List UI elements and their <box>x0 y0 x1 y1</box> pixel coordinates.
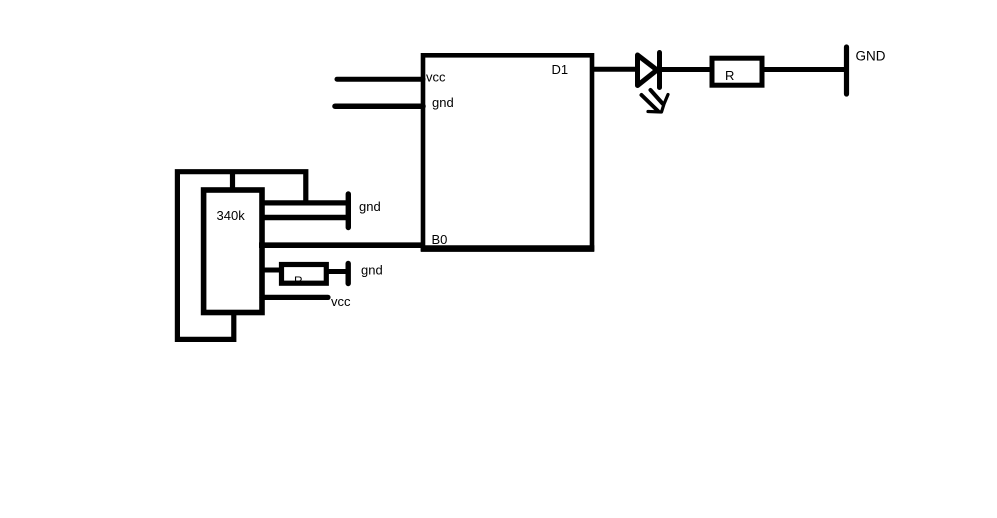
svg-text:R: R <box>725 68 734 83</box>
svg-text:gnd: gnd <box>432 95 454 110</box>
wire upper gnd pair (top) <box>262 200 347 205</box>
LED arrowhead <box>648 95 668 113</box>
ground bar gnd2 <box>346 264 351 284</box>
svg-text:gnd: gnd <box>359 199 381 214</box>
wire resistor R2 to gnd bar <box>326 269 347 274</box>
resistor R <box>712 58 762 85</box>
wire vcc stub <box>337 77 423 82</box>
wire outer loop (left vertical + top horizontal) <box>177 172 305 340</box>
svg-text:B0: B0 <box>432 232 448 247</box>
svg-text:340k: 340k <box>217 208 246 223</box>
wire resistor to GND bar <box>762 67 845 72</box>
LED cathode bar <box>657 53 662 88</box>
wire vcc lower <box>262 295 328 300</box>
LED D1 diode triangle <box>638 55 658 86</box>
wire LED to resistor R <box>659 67 712 72</box>
IC U1 <box>423 55 592 248</box>
svg-text:gnd: gnd <box>361 263 383 278</box>
ground bar gnd1 <box>346 194 351 228</box>
svg-text:vcc: vcc <box>426 70 446 85</box>
svg-text:D1: D1 <box>552 62 569 77</box>
resistor R2 <box>282 265 327 284</box>
svg-text:GND: GND <box>856 49 886 64</box>
resonator 340k <box>204 190 262 313</box>
wire D1 pin to LED <box>592 67 640 72</box>
wire upper gnd pair (bottom) <box>262 215 346 221</box>
ground GND bar <box>844 47 849 94</box>
LED light arrow 1 <box>642 95 659 111</box>
IC U1 bottom edge (thicker) <box>421 245 595 252</box>
wire vertical drop to 340k top <box>230 171 235 190</box>
LED light arrow 2 <box>651 90 663 104</box>
wire B0 net <box>259 242 423 248</box>
wire gnd stub <box>335 103 423 109</box>
wire 340k to resistor R2 <box>262 268 282 273</box>
svg-text:vcc: vcc <box>331 294 351 309</box>
